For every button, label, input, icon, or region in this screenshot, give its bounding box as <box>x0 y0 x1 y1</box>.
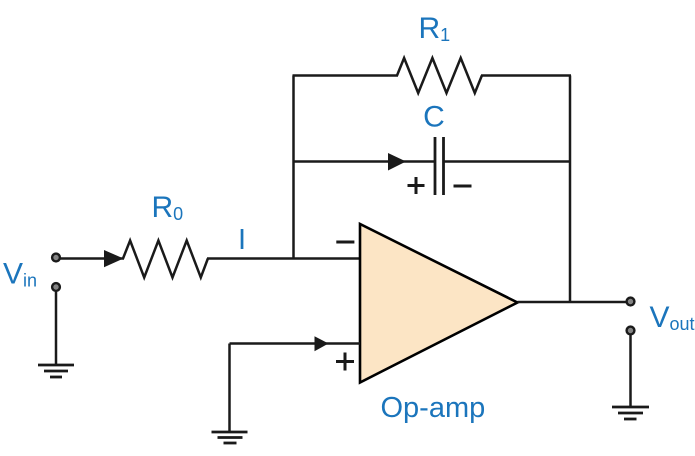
ground at non-inverting input <box>212 432 248 443</box>
wire left vertical branch of feedback from node I up to feedback network <box>292 76 295 259</box>
wire top feedback right segment <box>481 74 571 77</box>
wire non-inverting input from ground branch <box>230 342 361 345</box>
non-inverting input plus mark <box>336 353 354 371</box>
wire from resistor R0 to op-amp inverting input, node I <box>207 257 360 260</box>
wire capacitor branch right segment <box>444 160 572 163</box>
svg-text:I: I <box>238 224 246 256</box>
wire from Vout lower terminal down to ground <box>629 335 632 408</box>
wire top feedback left segment <box>293 74 399 77</box>
svg-text:Op-amp: Op-amp <box>381 392 486 424</box>
ground at Vout <box>612 407 649 419</box>
op-amp U1 <box>360 224 518 383</box>
label R1 <box>419 12 451 45</box>
wire down from non-inverting input to ground <box>228 344 231 433</box>
terminal Vout lower dot <box>627 327 635 335</box>
label R0 <box>152 191 184 224</box>
wire output from op-amp to Vout terminal <box>518 301 628 304</box>
label C <box>423 101 445 134</box>
label Vin <box>3 258 37 291</box>
polarity minus mark at capacitor <box>454 185 472 188</box>
wire capacitor branch left segment <box>294 160 436 163</box>
resistor R1 <box>397 58 482 93</box>
wire right vertical branch of feedback down to output node <box>569 76 572 303</box>
terminal Vin upper dot <box>52 254 60 262</box>
terminal Vout upper dot <box>627 298 635 306</box>
label Vout <box>650 301 695 334</box>
wire input segment from Vin terminal to resistor R0 <box>58 257 124 260</box>
ground at Vin <box>38 365 74 377</box>
resistor R0 <box>123 241 208 278</box>
label I (current) <box>238 224 246 256</box>
polarity plus mark at capacitor <box>408 177 425 194</box>
capacitor C <box>435 137 444 195</box>
terminal Vin lower dot <box>52 283 60 291</box>
svg-text:C: C <box>423 101 445 134</box>
label Op-amp <box>381 392 486 424</box>
current direction arrow on input wire <box>104 250 124 267</box>
current direction arrow on non-inverting input wire <box>315 336 329 351</box>
current direction arrow on capacitor branch <box>388 153 406 171</box>
wire from Vin lower terminal down to ground <box>55 291 58 365</box>
inverting input minus mark <box>336 241 354 244</box>
